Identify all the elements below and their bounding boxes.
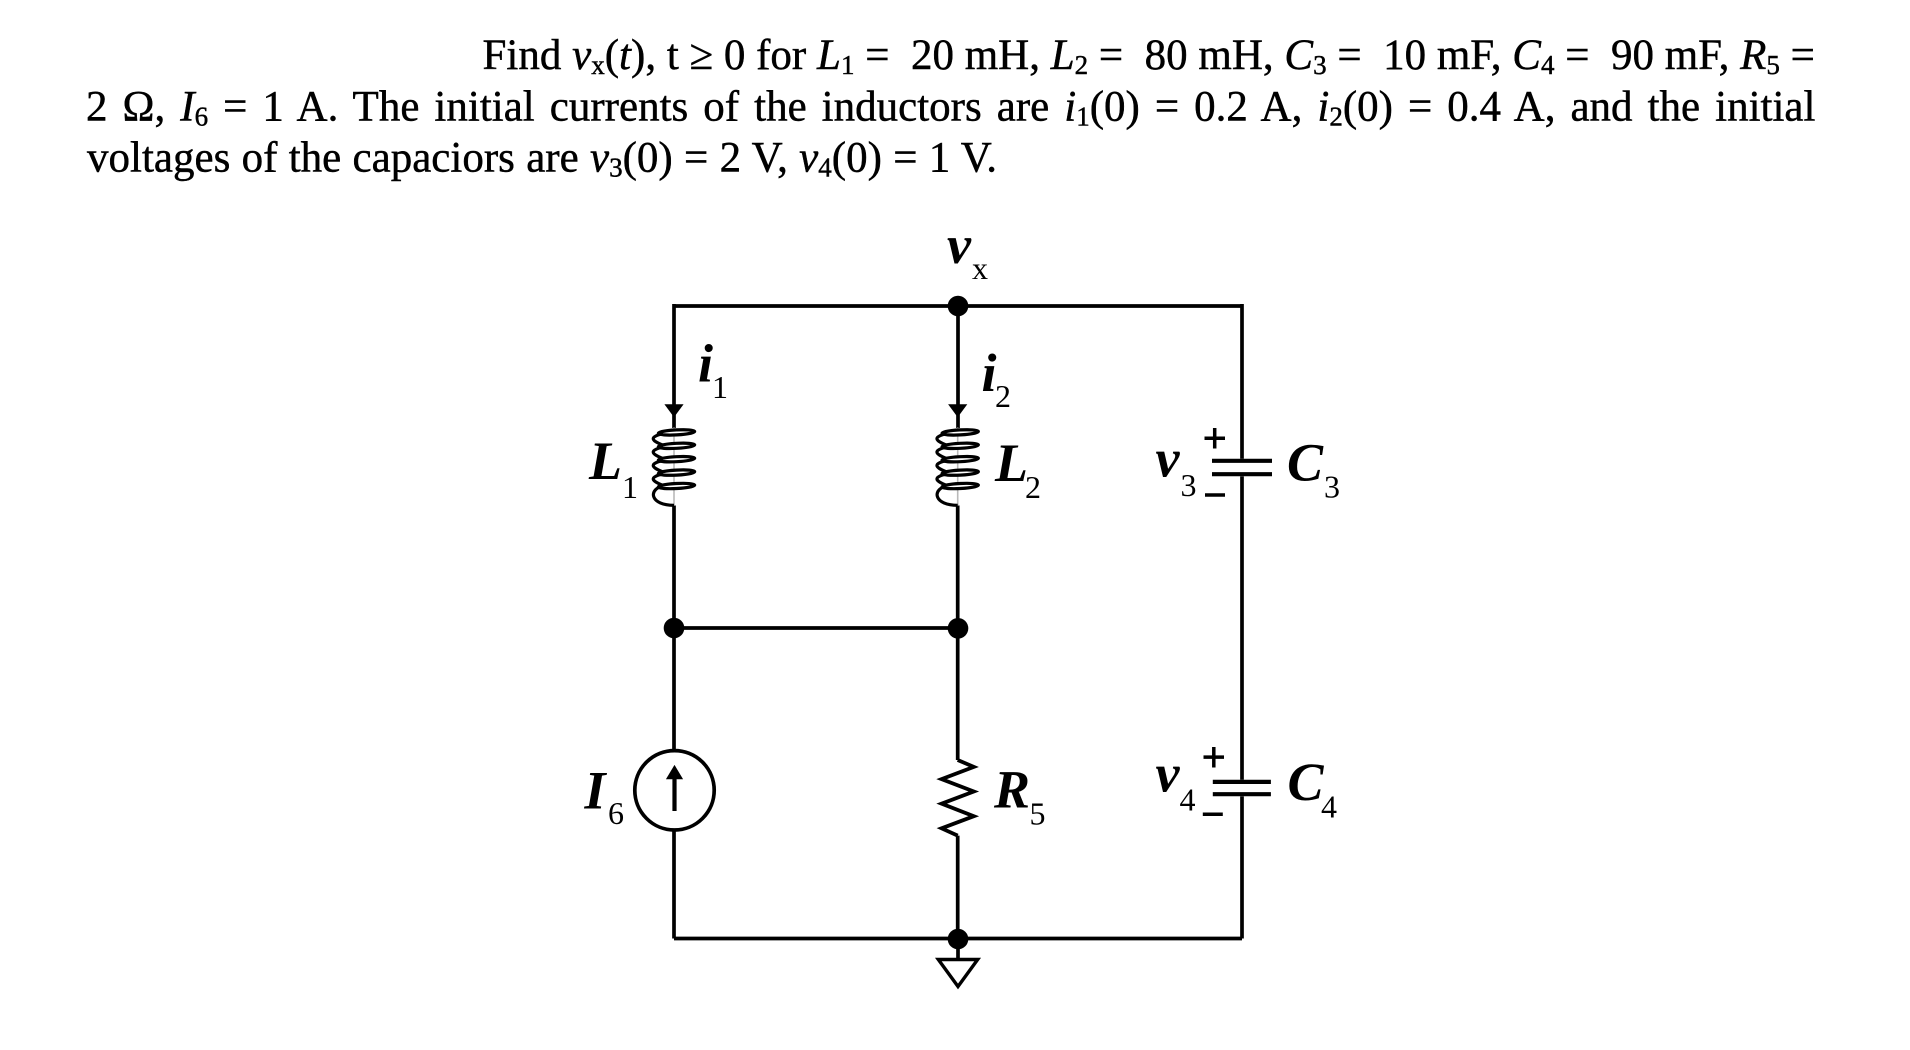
svg-text:R: R xyxy=(993,760,1030,820)
capacitor C3 xyxy=(1212,461,1272,474)
svg-text:v: v xyxy=(1156,429,1181,489)
minus sign of v4 xyxy=(1203,813,1223,817)
svg-text:x: x xyxy=(972,250,988,286)
arrow i2 head xyxy=(948,404,967,417)
svg-text:v: v xyxy=(1156,743,1181,803)
svg-text:6: 6 xyxy=(608,795,624,831)
svg-text:2 Ω, I6 = 1 A. The initial cur: 2 Ω, I6 = 1 A. The initial currents of t… xyxy=(86,84,1815,132)
label C3 xyxy=(1287,433,1340,505)
node left mid junction dot xyxy=(664,618,685,639)
inductor L2 xyxy=(937,428,979,506)
svg-text:2: 2 xyxy=(995,378,1011,414)
label L2 xyxy=(994,433,1041,505)
label i1 xyxy=(698,333,728,405)
label I6 xyxy=(584,760,625,831)
wire L1 bottom to I6 top xyxy=(672,506,676,751)
svg-text:L: L xyxy=(588,431,622,491)
node vx (top junction dot) xyxy=(948,296,969,317)
minus sign of v3 xyxy=(1205,493,1225,497)
wire I6 bottom to bottom rail xyxy=(672,830,676,939)
plus sign of v4 xyxy=(1204,747,1225,768)
svg-text:1: 1 xyxy=(712,369,728,405)
wire middle horizontal link xyxy=(674,626,958,630)
inductor L1 xyxy=(653,428,695,506)
svg-text:4: 4 xyxy=(1321,789,1337,825)
svg-text:3: 3 xyxy=(1324,469,1340,505)
svg-text:2: 2 xyxy=(1025,469,1041,505)
plus sign of v3 xyxy=(1205,428,1226,449)
wire ground stub xyxy=(956,939,960,960)
svg-text:C: C xyxy=(1287,433,1324,493)
wire L2 bottom to R5 top xyxy=(956,506,960,761)
svg-text:3: 3 xyxy=(1181,467,1197,503)
svg-text:v: v xyxy=(947,215,972,275)
label L1 xyxy=(588,431,638,505)
ground xyxy=(938,960,977,987)
wire left drop to L1 (i1 branch) xyxy=(672,304,676,428)
wire middle drop to L2 (i2 branch) xyxy=(956,306,960,428)
svg-text:4: 4 xyxy=(1180,782,1196,818)
current source I6 xyxy=(635,751,714,830)
svg-text:i: i xyxy=(698,333,713,393)
label vx xyxy=(947,215,988,286)
svg-text:voltages of the capaciors are: voltages of the capaciors are v3(0) = 2 … xyxy=(87,135,997,183)
node right mid junction dot xyxy=(948,618,969,639)
svg-text:C: C xyxy=(1288,752,1325,812)
svg-text:1: 1 xyxy=(622,469,638,505)
label v3 xyxy=(1156,429,1197,503)
svg-text:Find vx(t), t ≥ 0 for L1 = 20: Find vx(t), t ≥ 0 for L1 = 20 mH, L2 = 8… xyxy=(483,32,1815,80)
svg-text:5: 5 xyxy=(1030,796,1046,832)
wire C3 bottom to C4 top xyxy=(1240,476,1244,779)
svg-text:L: L xyxy=(994,433,1028,493)
wire bottom horizontal xyxy=(674,937,1242,941)
wire C4 bottom to bottom rail xyxy=(1240,796,1244,938)
svg-text:I: I xyxy=(584,760,608,820)
label R5 xyxy=(993,760,1046,832)
node bottom junction dot xyxy=(948,929,969,950)
arrow i1 head xyxy=(664,404,683,417)
wire top horizontal xyxy=(674,304,1242,308)
resistor R5 xyxy=(942,760,974,836)
capacitor C4 xyxy=(1213,782,1271,794)
label i2 xyxy=(982,343,1012,414)
wire R5 bottom to bottom rail xyxy=(956,836,960,939)
label v4 xyxy=(1156,743,1196,817)
wire right drop to C3 xyxy=(1240,304,1244,459)
label C4 xyxy=(1288,752,1338,825)
